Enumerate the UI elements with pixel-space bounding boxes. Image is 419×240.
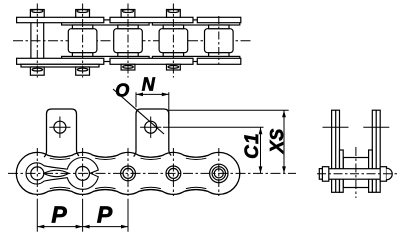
dimension C1 extension line [163,126,264,128]
plan pin 2 vertical centerline [82,4,84,78]
plan pin 2 bottom stub with ellipse [76,67,90,75]
plan pin 2 head with ellipse [76,10,90,18]
end view inner link plates [340,150,373,192]
plan pin 1 shaft edges [31,23,44,59]
plan pin 3 vertical centerline [127,4,129,78]
dimension C1 line with arrows [260,127,262,173]
end view roller [343,158,368,188]
side pin 1 vertical centerline [36,148,38,196]
side pin 1 circle [31,167,44,180]
plan roller and bushing at joint 5 [205,25,234,56]
plan pin 1 vertical centerline [36,4,38,78]
dimension XS extension line [169,109,289,111]
plan pin 1 bottom stub with ellipse [30,67,44,75]
plan roller and bushing at joint 4 [159,25,188,56]
side view chain plate outer contour [16,152,240,194]
end view pin [324,169,387,180]
plan inner link plate bars (link D) [152,20,239,62]
svg-text:P: P [51,202,67,228]
dimension P extension lines [37,199,128,232]
plan roller and bushing at joint 2 [68,25,97,56]
svg-text:XS: XS [267,129,287,154]
plan-view chain horizontal centerline [13,40,252,42]
plan pin 4 head with ellipse [167,10,181,18]
dimension XS line with arrows [283,110,285,173]
side view inner plate edge waist lines [50,158,207,188]
side pin 2 circle [76,167,90,181]
svg-text:C1: C1 [242,132,263,159]
side pin 3 vertical centerline [127,148,129,196]
spring clip of connecting link [26,157,98,189]
leader line for O [113,89,164,134]
attachment tab 1 with hole [44,109,79,157]
svg-text:N: N [142,75,156,95]
plan outer link plate bars (link A) [17,17,104,64]
plan roller and bushing at joint 3 [114,25,143,56]
end view left attachment tab edge-on [332,110,340,192]
side pin 2 vertical centerline [82,148,84,196]
end view tab hole centerline ticks [323,126,390,128]
side pin 5 vertical centerline [218,148,220,196]
dimension N extension lines [136,92,169,124]
end view right attachment tab edge-on [372,110,380,192]
plan outer link plate bars (link E) [197,17,241,64]
end view horizontal centerline [317,173,399,175]
plan pin 3 head with ellipse [121,10,135,18]
side pin 3 bushing and pin circles [121,166,136,181]
plan pin 3 bottom stub with ellipse [121,64,135,70]
dimension P line with arrows [37,226,128,228]
side pin 4 bushing and pin circles [166,166,181,181]
dimension N line with arrows [136,93,169,95]
svg-text:P: P [97,202,113,228]
end view pin left washer and tip [319,167,329,182]
plan inner link plate bars (link B) [62,20,150,62]
plan pin 4 vertical centerline [172,4,174,78]
end view pin right cap [380,167,392,182]
plan pin 1 head with ellipse [30,10,44,18]
side pin 5 roller bushing pin circles [210,164,228,182]
attachment tab 2 with hole [134,109,172,157]
plan spring clip plate of connecting link [21,64,99,67]
end view vertical centerline [355,147,357,198]
plan outer link plate bars (link C) [110,17,193,64]
side view horizontal centerline [8,172,296,174]
plan pin 4 bottom stub with ellipse [167,64,181,70]
side pin 4 vertical centerline [172,148,174,196]
plan pin 5 vertical centerline [218,16,220,64]
